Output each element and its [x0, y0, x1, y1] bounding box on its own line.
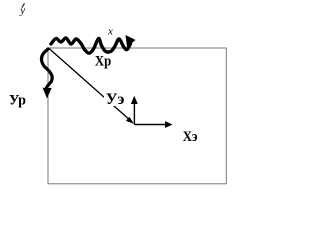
svg-text:Уэ: Уэ [106, 91, 125, 108]
svg-text:х: х [107, 25, 113, 37]
svg-text:Хэ: Хэ [183, 129, 198, 145]
svg-text:Хр: Хр [95, 53, 111, 69]
svg-text:Ур: Ур [9, 92, 26, 108]
